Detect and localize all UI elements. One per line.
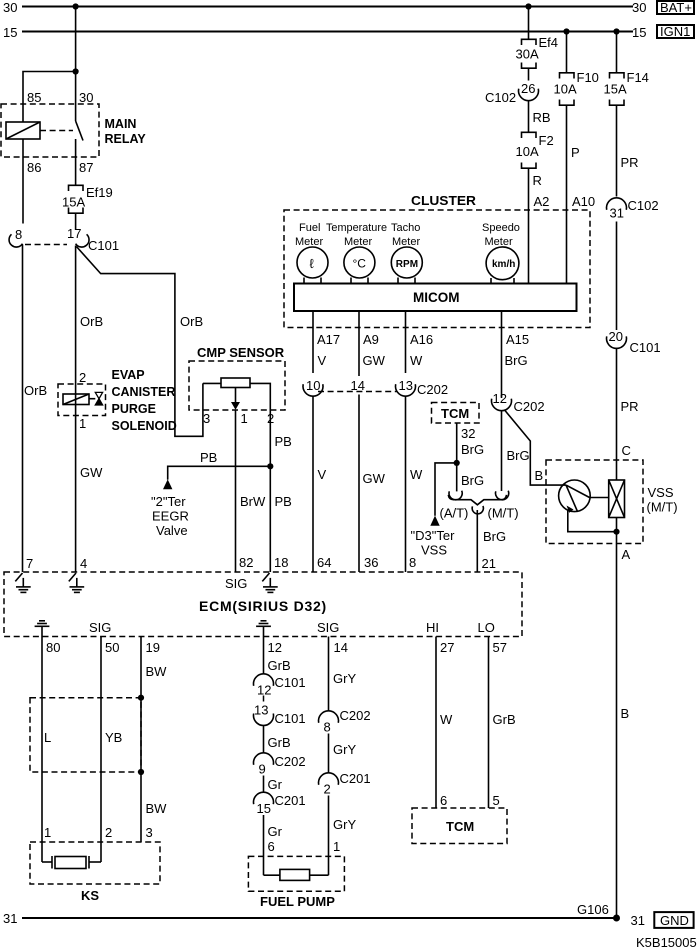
svg-text:VSS: VSS xyxy=(648,485,674,500)
node 31 rail xyxy=(3,911,645,928)
svg-text:C202: C202 xyxy=(340,708,371,723)
wire A17 / V xyxy=(312,311,314,373)
connector C101 pin 8 xyxy=(9,227,22,572)
CMP pin1 arrow xyxy=(231,388,240,573)
svg-text:C102: C102 xyxy=(485,90,516,105)
connector 20 C101 xyxy=(607,329,661,480)
svg-text:CMP SENSOR: CMP SENSOR xyxy=(197,345,285,360)
"2"Ter EEGR Valve label xyxy=(151,494,189,538)
svg-text:SOLENOID: SOLENOID xyxy=(112,419,177,433)
svg-text:BW: BW xyxy=(146,664,168,679)
svg-text:"2"Ter: "2"Ter xyxy=(151,494,186,509)
svg-text:17: 17 xyxy=(67,226,81,241)
svg-text:RPM: RPM xyxy=(396,259,418,270)
svg-text:Meter: Meter xyxy=(295,236,323,248)
connector 9 C202 xyxy=(254,753,306,793)
svg-text:12: 12 xyxy=(493,391,507,406)
svg-text:82: 82 xyxy=(239,555,253,570)
svg-text:RELAY: RELAY xyxy=(105,132,147,146)
svg-text:B: B xyxy=(621,706,630,721)
svg-text:30: 30 xyxy=(79,90,93,105)
svg-text:VSS: VSS xyxy=(421,543,447,558)
brace tail hook xyxy=(472,506,483,514)
svg-text:BrW: BrW xyxy=(240,494,266,509)
wire pin 27 / W xyxy=(435,637,437,809)
connector 12 C202 xyxy=(492,391,545,491)
svg-text:BW: BW xyxy=(146,801,168,816)
svg-text:GrY: GrY xyxy=(333,671,356,686)
svg-text:8: 8 xyxy=(15,227,22,242)
svg-text:Ef19: Ef19 xyxy=(86,185,113,200)
svg-text:3: 3 xyxy=(203,411,210,426)
svg-text:8: 8 xyxy=(409,555,416,570)
svg-text:10A: 10A xyxy=(516,144,539,159)
wire CMP pin2 internal xyxy=(250,383,270,572)
svg-text:CLUSTER: CLUSTER xyxy=(411,193,477,208)
svg-text:1: 1 xyxy=(241,411,248,426)
Temperature Meter label xyxy=(326,222,387,248)
VSS label xyxy=(647,485,678,515)
svg-text:KS: KS xyxy=(81,888,99,903)
wire branch to relay pin 85 xyxy=(23,72,76,123)
fuse Ef4 30A xyxy=(516,7,559,81)
connector half (A/T) xyxy=(449,491,462,500)
junction dot shield top xyxy=(138,695,144,701)
svg-text:26: 26 xyxy=(521,81,535,96)
svg-text:GW: GW xyxy=(363,471,386,486)
svg-text:8: 8 xyxy=(324,720,331,735)
svg-text:BrG: BrG xyxy=(505,353,528,368)
KS sensor element xyxy=(42,856,101,869)
MICOM box xyxy=(294,284,577,312)
junction at branch to coil xyxy=(73,68,79,74)
svg-text:A16: A16 xyxy=(410,332,433,347)
wire CMP pin3 internal xyxy=(203,382,221,384)
svg-text:BrG: BrG xyxy=(461,442,484,457)
svg-text:2: 2 xyxy=(324,782,331,797)
svg-text:2: 2 xyxy=(267,411,274,426)
svg-text:BrG: BrG xyxy=(461,473,484,488)
svg-text:20: 20 xyxy=(609,329,623,344)
svg-text:A15: A15 xyxy=(506,332,529,347)
svg-text:Meter: Meter xyxy=(344,236,372,248)
svg-text:21: 21 xyxy=(482,556,496,571)
svg-text:30A: 30A xyxy=(516,47,539,62)
wire F10 feed xyxy=(566,32,568,73)
VSS sensor element box xyxy=(609,480,625,518)
svg-text:15A: 15A xyxy=(62,195,85,210)
svg-text:Tacho: Tacho xyxy=(391,222,420,234)
connector 10 xyxy=(303,378,323,572)
connector 15 C201 xyxy=(254,792,306,875)
svg-text:P: P xyxy=(571,145,580,160)
svg-text:15A: 15A xyxy=(604,82,627,97)
svg-text:V: V xyxy=(318,353,327,368)
svg-text:GrY: GrY xyxy=(333,817,356,832)
svg-text:7: 7 xyxy=(26,556,33,571)
fuse F2 10A xyxy=(516,132,554,283)
svg-text:BAT+: BAT+ xyxy=(660,0,692,15)
svg-text:C: C xyxy=(622,443,631,458)
svg-text:IGN1: IGN1 xyxy=(660,24,690,39)
wire pin 14 / GrY xyxy=(328,637,330,711)
D3 off-page arrow xyxy=(430,516,439,526)
svg-text:Meter: Meter xyxy=(485,236,513,248)
svg-text:F2: F2 xyxy=(539,133,554,148)
svg-text:Temperature: Temperature xyxy=(326,222,387,234)
BAT+ box xyxy=(657,0,694,15)
EVAP canister purge solenoid dashed box xyxy=(58,384,106,416)
wire A16 / W xyxy=(405,311,407,373)
connector 2 C201 xyxy=(318,771,370,875)
Fuel Meter label xyxy=(295,222,323,248)
fuel pump motor element xyxy=(264,869,329,880)
junction on rail 30 at x75 xyxy=(73,3,79,9)
GND box xyxy=(654,912,693,928)
KS dashed box xyxy=(30,842,160,884)
svg-text:5: 5 xyxy=(493,793,500,808)
wire rail30 down to relay pin 30 xyxy=(75,7,77,122)
wire diagonal from pin17 to OrB branch xyxy=(76,247,202,437)
wire emitter to output xyxy=(568,511,617,532)
svg-text:80: 80 xyxy=(46,640,60,655)
wire coil pin86 down to connector 8 xyxy=(22,139,24,224)
junction dot G106 xyxy=(613,915,620,922)
svg-text:Ef4: Ef4 xyxy=(539,35,559,50)
Speedo Meter label xyxy=(482,222,520,248)
junction dot shield bottom xyxy=(138,769,144,775)
svg-text:31: 31 xyxy=(3,911,17,926)
svg-text:OrB: OrB xyxy=(180,314,203,329)
svg-text:15: 15 xyxy=(257,801,271,816)
svg-text:TCM: TCM xyxy=(446,819,474,834)
svg-text:RB: RB xyxy=(533,110,551,125)
connector 13 C202 xyxy=(395,378,448,572)
svg-text:32: 32 xyxy=(461,426,475,441)
junction on rail 30 at x528 xyxy=(525,3,531,9)
svg-text:Gr: Gr xyxy=(268,777,283,792)
CLUSTER dashed box xyxy=(284,210,590,328)
svg-text:°C: °C xyxy=(353,257,367,271)
connector C101 pin 17 xyxy=(67,226,119,572)
svg-text:"D3"Ter: "D3"Ter xyxy=(411,528,456,543)
svg-text:BrG: BrG xyxy=(483,529,506,544)
svg-text:C102: C102 xyxy=(628,198,659,213)
svg-text:W: W xyxy=(440,712,453,727)
wire A15 / BrG xyxy=(501,311,503,398)
relay switch blade xyxy=(76,121,83,141)
svg-text:GrB: GrB xyxy=(493,712,516,727)
svg-text:GrY: GrY xyxy=(333,742,356,757)
svg-text:G106: G106 xyxy=(577,902,609,917)
svg-text:31: 31 xyxy=(631,913,645,928)
svg-text:CANISTER: CANISTER xyxy=(112,385,176,399)
svg-text:K5B15005: K5B15005 xyxy=(636,935,697,949)
svg-text:MICOM: MICOM xyxy=(413,290,460,305)
svg-text:(M/T): (M/T) xyxy=(488,506,519,521)
wire pin 80 / L xyxy=(41,637,43,863)
wire collector to sensor element xyxy=(590,497,609,499)
connector 12 C101 pump side xyxy=(254,674,306,698)
svg-text:18: 18 xyxy=(274,555,288,570)
VSS dashed box xyxy=(546,460,643,544)
svg-text:Valve: Valve xyxy=(156,523,188,538)
svg-text:YB: YB xyxy=(105,730,122,745)
wire branch to D3 VSS arrow xyxy=(435,463,457,516)
svg-text:A: A xyxy=(622,547,631,562)
main relay K1 dashed box xyxy=(1,104,99,157)
connector 14 xyxy=(351,378,365,572)
fuel meter gauge xyxy=(297,247,328,284)
svg-text:EVAP: EVAP xyxy=(112,368,145,382)
svg-text:15: 15 xyxy=(3,25,17,40)
wire brace to ECM pin 21 xyxy=(476,510,478,572)
svg-text:15: 15 xyxy=(632,25,646,40)
connector 26 C102 xyxy=(485,81,539,133)
svg-text:1: 1 xyxy=(333,839,340,854)
ground at pin 4 xyxy=(69,573,84,592)
ground at pin 7 xyxy=(15,573,30,592)
svg-text:R: R xyxy=(533,173,542,188)
svg-text:3: 3 xyxy=(146,825,153,840)
svg-text:L: L xyxy=(44,730,51,745)
fuse F14 15A xyxy=(604,70,649,197)
svg-text:GW: GW xyxy=(363,353,386,368)
svg-text:C201: C201 xyxy=(275,793,306,808)
svg-text:OrB: OrB xyxy=(24,383,47,398)
svg-text:12: 12 xyxy=(257,683,271,698)
svg-text:GrB: GrB xyxy=(268,658,291,673)
svg-text:EEGR: EEGR xyxy=(152,509,189,524)
connector 13 C101 pump side xyxy=(254,703,306,754)
svg-text:6: 6 xyxy=(440,793,447,808)
EEGR off-page arrow xyxy=(163,479,172,489)
svg-text:C101: C101 xyxy=(630,340,661,355)
svg-text:MAIN: MAIN xyxy=(105,117,137,131)
ground above pin 12 xyxy=(256,621,271,637)
IGN1 box xyxy=(657,24,694,39)
MAIN RELAY label xyxy=(105,117,147,146)
svg-text:BrG: BrG xyxy=(507,448,530,463)
wire pin 19 / BW xyxy=(140,637,142,843)
wire VSS output down xyxy=(616,518,618,919)
"D3"Ter VSS label xyxy=(411,528,456,558)
svg-text:F10: F10 xyxy=(577,70,599,85)
svg-text:FUEL PUMP: FUEL PUMP xyxy=(260,894,335,909)
svg-text:V: V xyxy=(318,467,327,482)
svg-text:30: 30 xyxy=(3,0,17,15)
wire A9 / GW xyxy=(358,311,360,376)
ground above pin 80 xyxy=(35,621,50,637)
svg-text:Speedo: Speedo xyxy=(482,222,520,234)
svg-text:TCM: TCM xyxy=(441,406,469,421)
svg-text:HI: HI xyxy=(426,620,439,635)
wire PB branch to EEGR xyxy=(168,466,271,479)
tacho meter gauge xyxy=(391,247,422,284)
svg-text:GrB: GrB xyxy=(268,735,291,750)
dashed mate gap C101 xyxy=(263,696,265,705)
svg-text:A17: A17 xyxy=(317,332,340,347)
svg-text:14: 14 xyxy=(334,640,348,655)
svg-text:ECM(SIRIUS D32): ECM(SIRIUS D32) xyxy=(199,598,327,614)
svg-text:B: B xyxy=(535,468,544,483)
svg-text:km/h: km/h xyxy=(492,259,515,270)
wire TCM 32 / BrG xyxy=(456,423,458,491)
junction on rail 15 at x566 xyxy=(563,28,569,34)
junction dot VSS out xyxy=(613,529,619,535)
junction dot PB xyxy=(267,463,273,469)
node 30 rail xyxy=(3,0,646,15)
wire pin 57 / GrB xyxy=(488,637,490,809)
svg-text:12: 12 xyxy=(268,640,282,655)
FUEL PUMP dashed box xyxy=(248,856,344,891)
wire pin 12 / GrB xyxy=(263,637,265,675)
connector 31 C102 xyxy=(607,198,659,330)
svg-text:Gr: Gr xyxy=(268,824,283,839)
svg-text:PR: PR xyxy=(621,399,639,414)
relay actuator dashed link xyxy=(40,130,73,132)
svg-text:A2: A2 xyxy=(534,194,550,209)
brace joining A/T and M/T xyxy=(448,495,506,505)
svg-text:86: 86 xyxy=(27,160,41,175)
relay switch lower contact wire xyxy=(75,139,77,185)
svg-text:10A: 10A xyxy=(554,82,577,97)
svg-text:SIG: SIG xyxy=(89,620,111,635)
svg-text:C101: C101 xyxy=(275,675,306,690)
svg-text:31: 31 xyxy=(610,206,624,221)
svg-text:GW: GW xyxy=(80,465,103,480)
svg-text:SIG: SIG xyxy=(317,620,339,635)
svg-text:6: 6 xyxy=(268,839,275,854)
ground at pin 18 xyxy=(262,573,277,592)
svg-text:A10: A10 xyxy=(572,194,595,209)
svg-text:1: 1 xyxy=(44,825,51,840)
svg-text:GND: GND xyxy=(660,913,689,928)
shield dashed box KS xyxy=(30,698,141,772)
speedo meter gauge xyxy=(486,247,519,284)
svg-text:Meter: Meter xyxy=(392,236,420,248)
svg-text:(M/T): (M/T) xyxy=(647,500,678,515)
svg-text:4: 4 xyxy=(80,556,87,571)
TCM lower dashed box xyxy=(412,808,507,844)
connector half (M/T) xyxy=(496,491,509,500)
svg-text:Fuel: Fuel xyxy=(299,222,320,234)
svg-text:50: 50 xyxy=(105,640,119,655)
svg-text:13: 13 xyxy=(399,378,413,393)
svg-text:57: 57 xyxy=(493,640,507,655)
svg-text:2: 2 xyxy=(79,370,86,385)
svg-text:PR: PR xyxy=(621,155,639,170)
EVAP solenoid coil xyxy=(63,394,89,405)
svg-text:PB: PB xyxy=(275,434,292,449)
svg-text:C101: C101 xyxy=(275,711,306,726)
Tacho Meter label xyxy=(391,222,420,248)
ECM dashed box xyxy=(4,572,522,637)
svg-text:36: 36 xyxy=(364,555,378,570)
CMP sensor element xyxy=(221,378,250,388)
svg-text:C101: C101 xyxy=(88,238,119,253)
junction dot TCM branch xyxy=(454,460,460,466)
svg-text:PB: PB xyxy=(200,450,217,465)
EVAP valve symbol xyxy=(89,392,103,405)
svg-text:SIG: SIG xyxy=(225,576,247,591)
svg-text:85: 85 xyxy=(27,90,41,105)
svg-text:9: 9 xyxy=(259,762,266,777)
wire F14 feed xyxy=(616,32,618,73)
svg-text:C202: C202 xyxy=(275,754,306,769)
svg-text:2: 2 xyxy=(105,825,112,840)
svg-text:C202: C202 xyxy=(417,382,448,397)
svg-text:OrB: OrB xyxy=(80,314,103,329)
svg-text:F14: F14 xyxy=(627,70,649,85)
EVAP CANISTER PURGE SOLENOID label xyxy=(112,368,177,433)
svg-text:PURGE: PURGE xyxy=(112,402,156,416)
transistor Q1 xyxy=(559,480,591,513)
CMP sensor dashed box xyxy=(189,361,285,410)
svg-text:W: W xyxy=(410,353,423,368)
svg-text:C201: C201 xyxy=(340,771,371,786)
svg-text:27: 27 xyxy=(440,640,454,655)
C202 dashed mate line xyxy=(318,391,397,393)
svg-text:30: 30 xyxy=(632,0,646,15)
svg-text:(A/T): (A/T) xyxy=(440,506,469,521)
svg-text:W: W xyxy=(410,467,423,482)
fuse Ef19 15A xyxy=(62,185,113,230)
svg-text:LO: LO xyxy=(478,620,495,635)
svg-text:PB: PB xyxy=(275,494,292,509)
main relay coil xyxy=(6,122,40,139)
junction on rail 15 at x616 xyxy=(613,28,619,34)
svg-text:19: 19 xyxy=(146,640,160,655)
temperature meter gauge xyxy=(344,247,375,284)
connector 8 C202 xyxy=(318,708,370,773)
node 15 rail xyxy=(3,25,646,40)
svg-text:C202: C202 xyxy=(514,399,545,414)
svg-text:A9: A9 xyxy=(363,332,379,347)
wire diagonal 12C202 to B xyxy=(505,411,566,486)
svg-text:1: 1 xyxy=(79,416,86,431)
wire pin 50 / YB xyxy=(100,637,102,863)
svg-text:87: 87 xyxy=(79,160,93,175)
C101 dashed mate line xyxy=(25,244,67,246)
fuse F10 10A xyxy=(554,70,599,284)
TCM upper dashed box xyxy=(432,403,480,424)
svg-text:13: 13 xyxy=(254,703,268,718)
svg-text:64: 64 xyxy=(317,555,331,570)
